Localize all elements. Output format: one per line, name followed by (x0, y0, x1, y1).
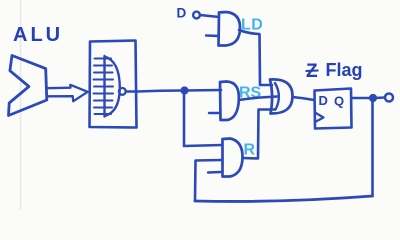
zero-detect box (90, 41, 137, 128)
wire R output up to OR gate (243, 110, 276, 159)
svg-text:D: D (177, 6, 187, 21)
svg-text:Q: Q (334, 94, 344, 109)
or-gate inner curve (275, 83, 279, 110)
and-gate RS (220, 82, 239, 121)
svg-text:ALU: ALU (13, 24, 63, 46)
wire bubble to box edge (126, 90, 136, 92)
node A junction dot (180, 86, 188, 94)
wire OR output to flip-flop (293, 97, 315, 100)
wire Q output (352, 97, 374, 100)
or-gate (270, 79, 293, 113)
wire node A to RS gate (185, 89, 222, 92)
svg-text:R: R (244, 142, 256, 159)
wire D to LD gate (200, 15, 219, 17)
and-gate LD (219, 12, 241, 46)
LD gate lower input stub (206, 34, 219, 37)
wire feedback down from node B (371, 98, 374, 196)
svg-text:D: D (319, 93, 328, 108)
terminal D (193, 12, 200, 19)
wire node B to output terminal (373, 96, 385, 99)
and-gate R (223, 139, 243, 177)
wire RS output to OR gate (239, 97, 277, 101)
inversion bubble (119, 88, 126, 95)
clock input triangle (315, 113, 324, 123)
R gate bottom input stub (208, 171, 221, 174)
terminal Q output (385, 94, 393, 102)
node B junction dot (369, 94, 377, 102)
wire LD output down to OR gate (239, 30, 272, 85)
paper margin crease (20, 0, 22, 210)
multi-input NOR gate (zero detector) (105, 56, 120, 117)
wire feedback bottom run (195, 196, 373, 201)
gate input ticks (94, 59, 114, 115)
svg-text:Flag: Flag (326, 60, 363, 80)
wire zero-detect output to node A (137, 91, 184, 92)
wire node A down to R gate (184, 91, 222, 147)
ALU symbol (9, 56, 47, 116)
wire feedback up to R gate (195, 160, 222, 201)
RS gate lower input stub (209, 112, 220, 114)
flip-flop box (315, 89, 352, 129)
bus arrow from ALU to zero-detect (47, 85, 88, 102)
